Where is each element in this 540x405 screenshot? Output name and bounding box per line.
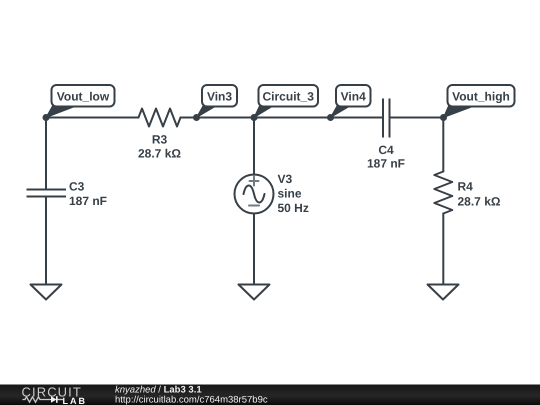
resistor R3	[139, 109, 181, 127]
svg-text:Vout_low: Vout_low	[57, 90, 110, 104]
svg-text:Vin4: Vin4	[341, 90, 366, 104]
V3 plus sign	[250, 177, 259, 186]
svg-text:187 nF: 187 nF	[69, 194, 107, 208]
svg-text:V3: V3	[278, 172, 293, 186]
svg-text:LAB: LAB	[63, 396, 88, 405]
flag box Vin4	[336, 85, 371, 107]
V3 minus sign	[249, 205, 259, 207]
CircuitLab logo diode	[51, 396, 57, 403]
ground G3	[428, 285, 459, 300]
wire V3 to ground	[253, 214, 255, 285]
flag tail Vout_low	[46, 106, 76, 118]
flag box Circuit_3	[259, 85, 319, 107]
svg-text:Vout_high: Vout_high	[452, 90, 510, 104]
wire C3 to ground	[45, 197, 47, 285]
node dot Vout_high	[440, 114, 447, 121]
node dot Vin3	[193, 114, 200, 121]
V3 sine wave	[244, 186, 265, 203]
node dot Circuit_3	[251, 114, 258, 121]
ground G2	[239, 285, 270, 300]
svg-text:Circuit_3: Circuit_3	[263, 90, 315, 104]
svg-text:R3: R3	[152, 132, 168, 146]
capacitor C4	[383, 99, 390, 138]
flag tail Vout_high	[444, 106, 475, 118]
svg-text:28.7 kΩ: 28.7 kΩ	[138, 147, 181, 161]
svg-text:http://circuitlab.com/c764m38r: http://circuitlab.com/c764m38r57b9c	[115, 395, 268, 405]
wire R4 to ground	[442, 214, 444, 285]
flag tail Vin3	[197, 106, 217, 118]
wire C4 to Vout_high	[390, 117, 444, 119]
svg-text:C3: C3	[69, 180, 85, 194]
flag box Vout_low	[52, 85, 115, 107]
svg-text:50 Hz: 50 Hz	[278, 201, 309, 215]
flag box Vin3	[202, 85, 237, 107]
svg-text:Vin3: Vin3	[207, 90, 232, 104]
resistor R4	[434, 172, 452, 214]
svg-text:sine: sine	[278, 187, 302, 201]
wire Circuit_3 down to V3	[253, 118, 255, 175]
voltage source V3	[235, 175, 274, 214]
wire Vout_low down to C3	[45, 118, 47, 190]
ground G1	[31, 285, 62, 300]
flag tail Circuit_3	[254, 106, 273, 118]
flag tail Vin4	[331, 106, 351, 118]
svg-text:187 nF: 187 nF	[367, 157, 405, 171]
node dot Vout_low	[43, 114, 50, 121]
wire R3 to C4	[181, 117, 384, 119]
svg-text:28.7 kΩ: 28.7 kΩ	[458, 195, 501, 209]
svg-text:C4: C4	[378, 143, 394, 157]
node dot Vin4	[327, 114, 334, 121]
wire Vout_high down to R4	[442, 118, 444, 172]
wire Vout_low to R3	[46, 117, 139, 119]
svg-text:R4: R4	[458, 180, 474, 194]
CircuitLab logo resistor squiggle	[23, 397, 52, 402]
capacitor C3	[27, 190, 67, 197]
flag box Vout_high	[448, 85, 515, 107]
